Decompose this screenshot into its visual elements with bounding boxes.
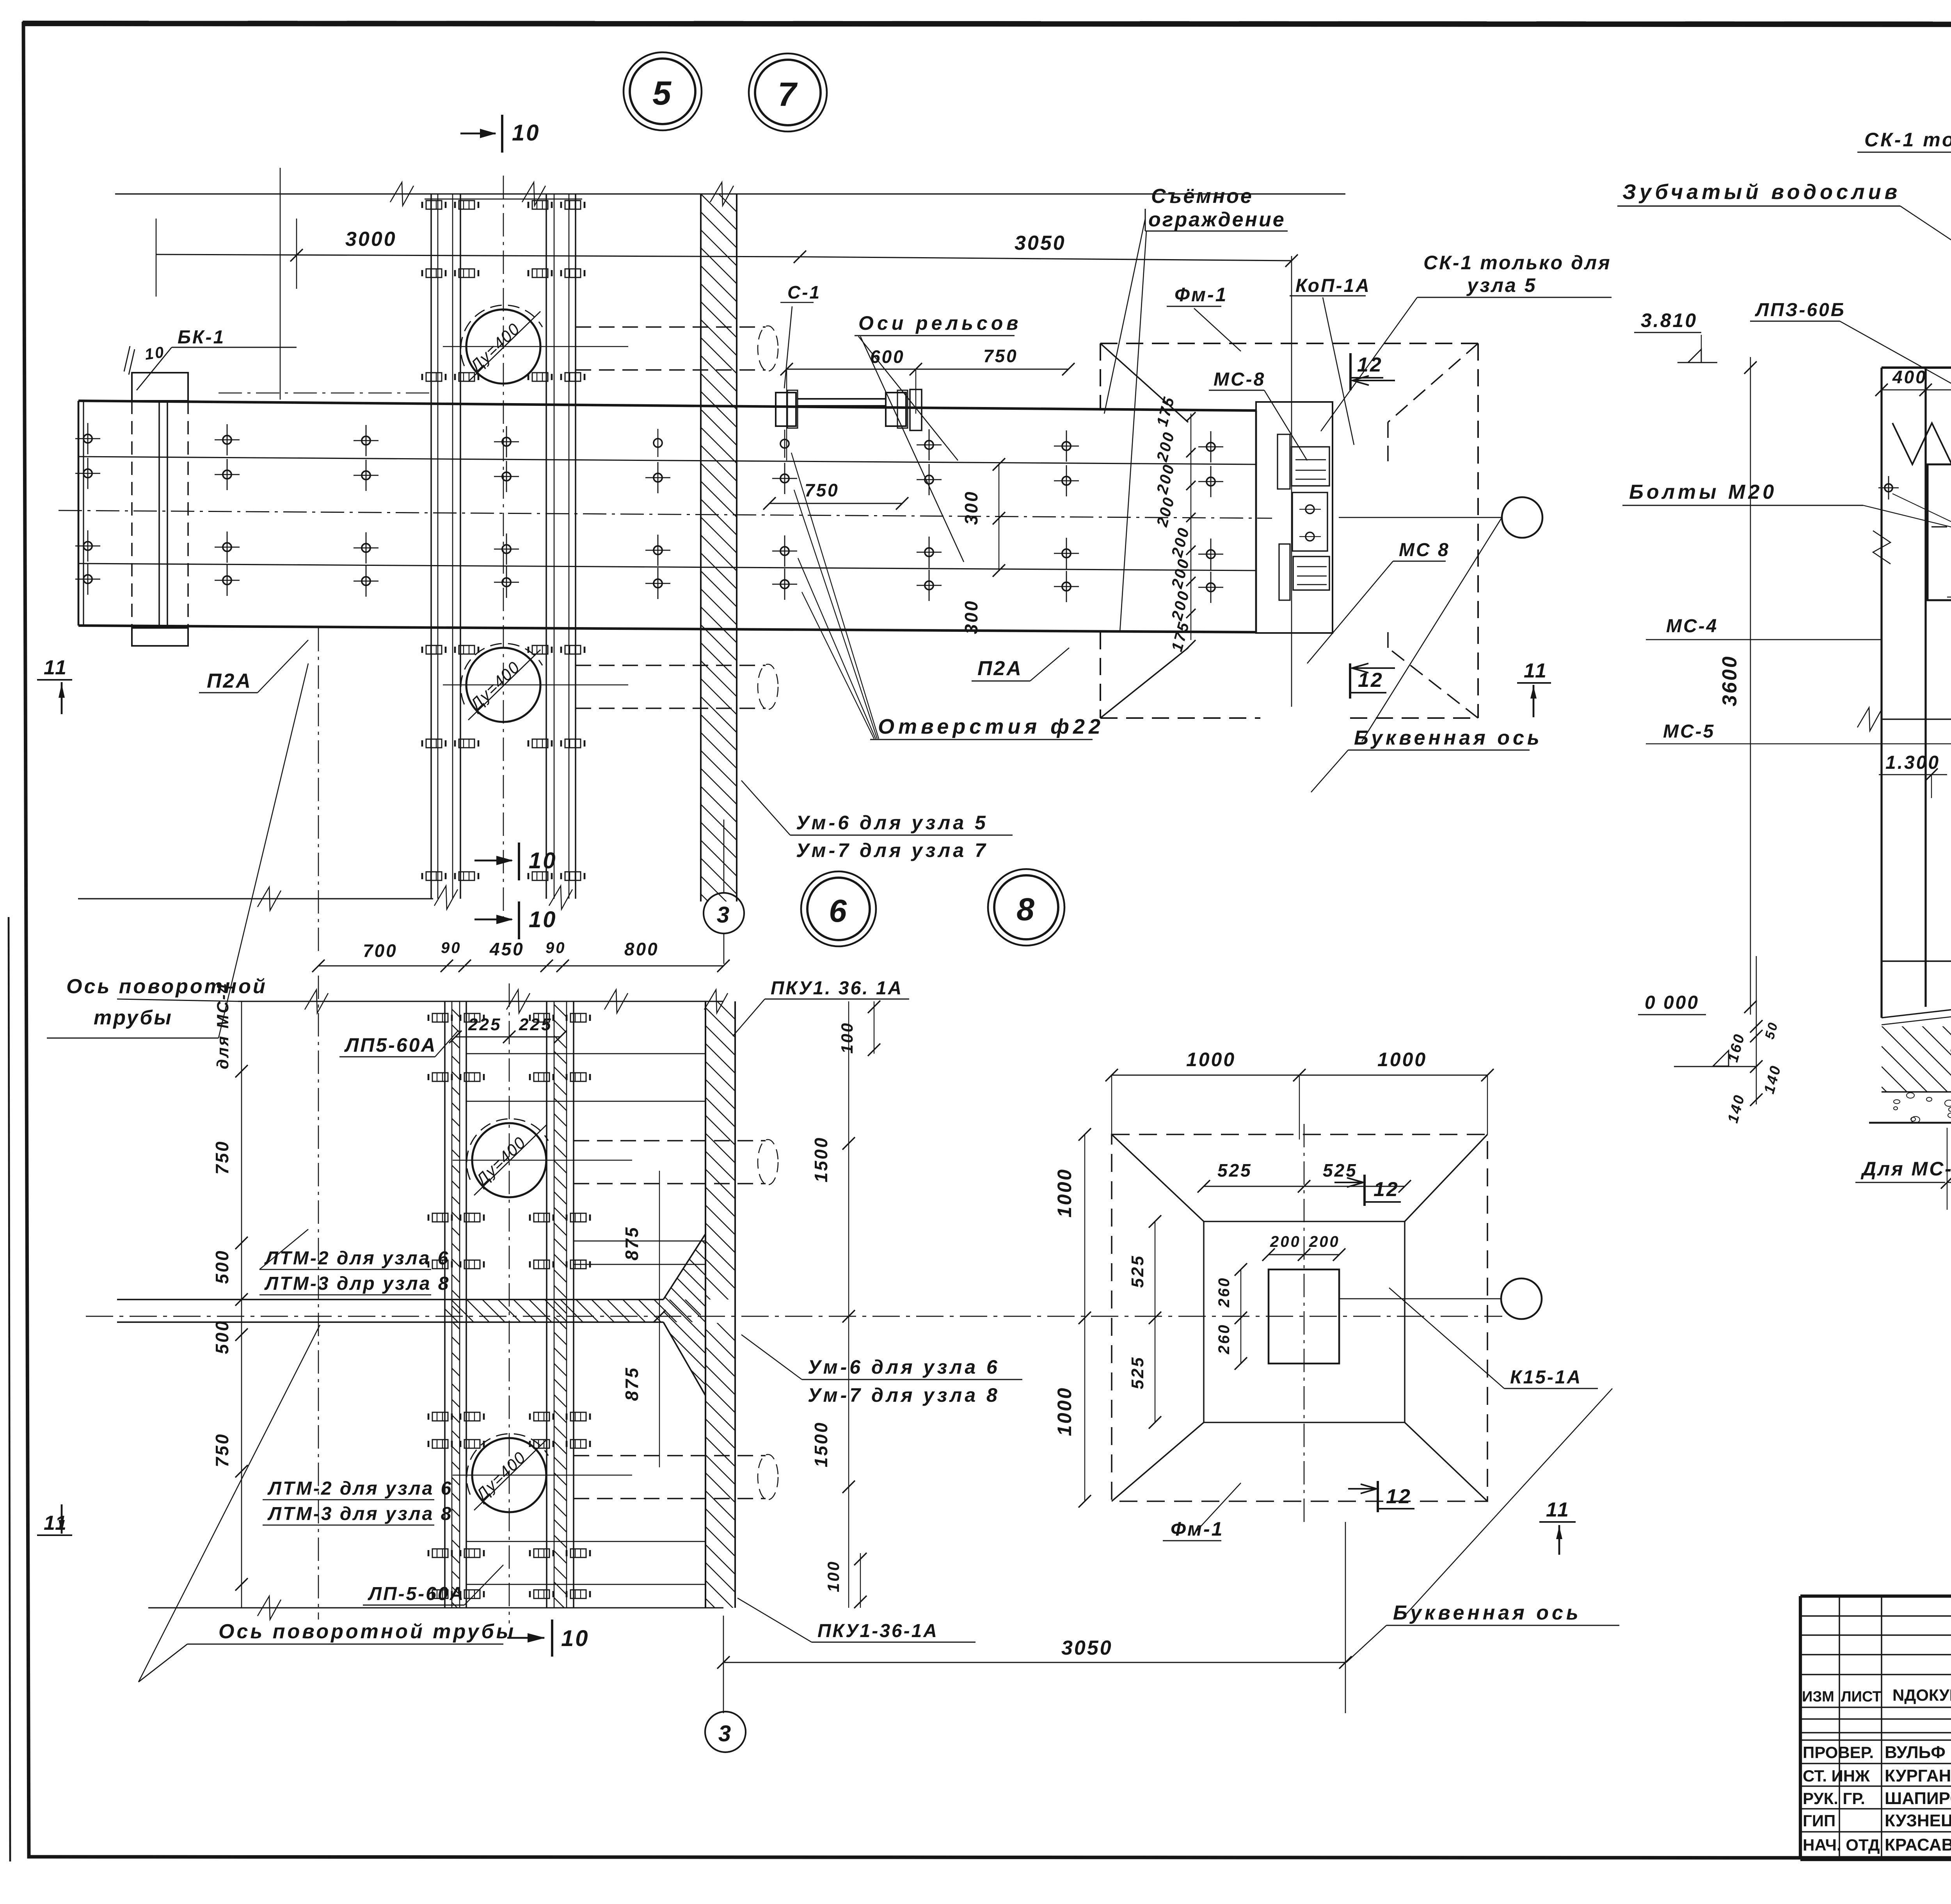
- svg-text:Ось поворотной: Ось поворотной: [66, 975, 267, 998]
- vertical chain left of channel (lower): [318, 976, 319, 1620]
- label КоП-1А: [1290, 276, 1371, 445]
- svg-text:Ум-7 для узла 7: Ум-7 для узла 7: [796, 839, 988, 861]
- svg-text:11: 11: [1524, 660, 1548, 682]
- svg-text:НАЧ. ОТД: НАЧ. ОТД: [1803, 1836, 1880, 1854]
- dimension 225 225: [449, 1015, 567, 1043]
- wall break marks: [1873, 531, 1951, 564]
- label Буквенная ось upper: [1311, 517, 1542, 792]
- svg-text:СК-1 только для: СК-1 только для: [1423, 252, 1612, 274]
- svg-text:П2А: П2А: [207, 670, 252, 692]
- svg-text:Для МС-5: Для МС-5: [1860, 1158, 1951, 1180]
- label Фм-1 top: [1167, 284, 1241, 351]
- title block: [1800, 1596, 1951, 1900]
- channel with flanges (lower plan): [428, 989, 1173, 1904]
- svg-text:Буквенная ось: Буквенная ось: [1354, 727, 1542, 749]
- axis bubble 3 (upper): [704, 820, 744, 964]
- rail clamp C-1 detail: [776, 389, 922, 430]
- svg-text:КоП-1А: КоП-1А: [1295, 276, 1371, 296]
- svg-text:225: 225: [519, 1015, 552, 1034]
- label ЛПЗ-60Б: [1750, 300, 1951, 451]
- dim 1.300: [1879, 752, 1947, 798]
- level mark 3.810: [1634, 309, 1717, 363]
- svg-text:3000: 3000: [345, 228, 397, 251]
- label МС-5: [1663, 721, 1715, 742]
- Фм-1 left dims 1000/1000 rotated: [1054, 1128, 1091, 1508]
- svg-text:300: 300: [961, 490, 981, 525]
- label МС-8: [1209, 369, 1307, 460]
- section mark 12 upper: [1350, 353, 1395, 390]
- svg-text:ЛТМ-2 для узла 6: ЛТМ-2 для узла 6: [267, 1478, 453, 1499]
- svg-text:1500: 1500: [811, 1136, 831, 1182]
- svg-text:800: 800: [624, 939, 659, 959]
- svg-text:600: 600: [870, 347, 905, 367]
- section mark 11 right of Фм-1: [1517, 660, 1551, 717]
- vertical chain axis under beam: [318, 628, 319, 952]
- svg-text:СТ. ИНЖ: СТ. ИНЖ: [1803, 1767, 1870, 1785]
- svg-text:3600: 3600: [1718, 655, 1741, 706]
- svg-text:ЛП5-60А: ЛП5-60А: [344, 1034, 437, 1056]
- svg-text:100: 100: [838, 1022, 856, 1054]
- bottom boundary line of lower plan: [148, 1596, 723, 1620]
- svg-text:750: 750: [805, 480, 839, 500]
- Фм-1 left dims 525/525 rotated: [1128, 1215, 1161, 1429]
- serrated weir left (Зубчатый водослив): [1892, 423, 1951, 464]
- swivel pipe horizontal arm: [117, 1044, 878, 1604]
- dim 100 rotated (top right of lower plan): [838, 1001, 880, 1056]
- beam inner rail lines: [78, 457, 1256, 571]
- pipe Ду=400 upper circle: [461, 305, 542, 384]
- svg-text:200: 200: [1270, 1233, 1301, 1250]
- svg-text:ЛТМ-3 для узла 8: ЛТМ-3 для узла 8: [267, 1504, 453, 1524]
- svg-text:10: 10: [529, 907, 557, 932]
- svg-text:400: 400: [1892, 367, 1927, 387]
- МС-8 / КоП-1А end assembly: [1256, 256, 1333, 707]
- label Болты М20: [1622, 481, 1951, 533]
- svg-text:1000: 1000: [1377, 1049, 1427, 1070]
- svg-text:12: 12: [1358, 669, 1384, 692]
- label Ум-6 для узла 5 / Ум-7 для узла 7: [741, 780, 1013, 861]
- svg-text:525: 525: [1128, 1255, 1147, 1288]
- hatched strip ПКУ1-36-1А (lower plan): [705, 972, 1033, 1904]
- label Буквенная ось (Фм-1): [1346, 1388, 1619, 1662]
- bolt holes grid on beam: [75, 423, 1223, 603]
- svg-text:ограждение: ограждение: [1148, 208, 1286, 231]
- svg-text:450: 450: [489, 939, 524, 959]
- hidden pipe to the right (upper): [219, 326, 778, 393]
- section mark 10 (between plans, upper): [474, 843, 557, 880]
- svg-text:12: 12: [1374, 1178, 1399, 1201]
- section mark 11 left lower: [37, 1504, 72, 1535]
- label П2А left: [199, 640, 308, 693]
- trough left labels: [1947, 542, 1951, 603]
- Фм-1 dim 200 200: [1262, 1233, 1345, 1261]
- svg-text:ВУЛЬФ: ВУЛЬФ: [1885, 1743, 1946, 1762]
- label Отверстия ф22: [791, 453, 1104, 740]
- svg-text:200: 200: [1309, 1233, 1340, 1250]
- svg-text:3050: 3050: [1061, 1637, 1113, 1659]
- svg-text:3050: 3050: [1015, 232, 1066, 254]
- svg-text:11: 11: [1546, 1499, 1570, 1521]
- dimension 3050 bottom: [717, 1522, 1352, 1713]
- svg-text:Ум-7 для узла 8: Ум-7 для узла 8: [808, 1384, 1000, 1406]
- svg-text:для МС-4: для МС-4: [213, 982, 232, 1069]
- bottom dim row Для МС-5 750 500 500 750: [1855, 1128, 1951, 1210]
- section mark 10 (between plans, lower): [474, 901, 557, 939]
- svg-text:10: 10: [144, 343, 166, 363]
- channel centre horizontal lines: [453, 1160, 632, 1475]
- svg-text:ЛИСТ: ЛИСТ: [1841, 1689, 1882, 1705]
- svg-text:1000: 1000: [1186, 1049, 1236, 1070]
- svg-text:12: 12: [1386, 1485, 1412, 1508]
- svg-text:РУК. ГР.: РУК. ГР.: [1803, 1789, 1865, 1808]
- svg-text:90: 90: [545, 939, 566, 956]
- section mark 10 top: [460, 115, 540, 153]
- svg-text:875: 875: [622, 1226, 642, 1260]
- dimension 750 mid: [763, 480, 908, 510]
- hatched strip ПКУ1-36-1А (upper plan): [701, 158, 1444, 1637]
- dimensions 300 300 rotated: [961, 458, 1005, 634]
- axis bubble (letter axis, upper): [1339, 497, 1542, 538]
- svg-text:узла 5: узла 5: [1466, 274, 1537, 296]
- svg-text:КУЗНЕЦОВ: КУЗНЕЦОВ: [1885, 1811, 1951, 1830]
- pipe Ду=400 circle (lower plan, bottom): [467, 1434, 548, 1512]
- svg-text:6: 6: [829, 893, 848, 929]
- left dim column для МС-4: [212, 982, 248, 1608]
- bottom boundary of upper plan: [78, 887, 433, 910]
- dim 3600 rotated: [1718, 357, 1757, 1015]
- svg-text:1.300: 1.300: [1885, 752, 1940, 773]
- svg-text:ГИП: ГИП: [1803, 1812, 1836, 1830]
- svg-text:100: 100: [824, 1560, 842, 1592]
- vertical extension at x400: [156, 219, 157, 297]
- Фм-1 anchor plate: [1269, 1269, 1339, 1364]
- labels ЛТМ-2 / ЛТМ-3 (upper pair): [259, 1229, 450, 1295]
- label C-1: [780, 282, 821, 388]
- label Ось поворотной трубы (upper plan): [47, 663, 308, 1038]
- svg-text:Ум-6 для узла 6: Ум-6 для узла 6: [808, 1356, 1000, 1378]
- section mark 12 lower-left of Фм-1: [1350, 663, 1395, 699]
- svg-text:СК-1 только для узла 5: СК-1 только для узла 5: [1864, 129, 1951, 151]
- pipe axis vertical chain: [503, 176, 504, 917]
- ground slab hatched: [1882, 295, 1951, 1883]
- svg-text:3: 3: [718, 1721, 732, 1746]
- labels ЛТМ-2 / ЛТМ-3 (lower pair): [263, 1478, 453, 1525]
- axis bubble 3 (bottom): [705, 1712, 746, 1752]
- beam П2А top plan: outline: [78, 401, 1256, 632]
- svg-text:КРАСАВИН: КРАСАВИН: [1885, 1835, 1951, 1854]
- horizontal lines channel to strip (lower): [466, 1054, 705, 1584]
- svg-text:К15-1А: К15-1А: [1510, 1367, 1582, 1388]
- svg-text:ШАПИРО: ШАПИРО: [1885, 1789, 1951, 1808]
- Фм-1 centre cross lines: [1304, 1124, 1305, 1522]
- dim 100 rotated (bottom right of lower plan): [824, 1553, 867, 1608]
- svg-text:Зубчатый водослив: Зубчатый водослив: [1622, 180, 1901, 204]
- svg-text:ЛПЗ-60Б: ЛПЗ-60Б: [1755, 300, 1846, 320]
- svg-text:П2А: П2А: [977, 657, 1023, 680]
- svg-text:МС-4: МС-4: [1666, 616, 1718, 636]
- svg-text:Болты М20: Болты М20: [1629, 481, 1777, 503]
- label МС-4: [1646, 616, 1882, 640]
- svg-text:8: 8: [1016, 892, 1036, 927]
- Фм-1 inner solid square: [1204, 1221, 1405, 1422]
- svg-text:1500: 1500: [811, 1421, 831, 1467]
- pipe Ду=400 lower circle: [461, 644, 542, 722]
- axis bubble 5: [624, 52, 702, 130]
- label П2А right: [972, 648, 1069, 681]
- svg-text:500: 500: [212, 1319, 232, 1354]
- dim 1500 rotated pair + 1000: [811, 1001, 855, 1608]
- hidden pipes right (lower plan): [574, 1140, 778, 1500]
- vertical pipe run with flanges (upper): [422, 194, 585, 909]
- dimension 700 90 450 90 800: [312, 939, 730, 972]
- svg-text:Буквенная ось: Буквенная ось: [1393, 1602, 1581, 1624]
- svg-text:КУРГАНОВА: КУРГАНОВА: [1885, 1766, 1951, 1785]
- channel axis chain (lower): [509, 983, 510, 1623]
- pipe Ду=400 circle (lower plan, top): [467, 1119, 548, 1197]
- svg-text:1000: 1000: [1054, 1387, 1075, 1436]
- svg-text:90: 90: [441, 939, 462, 956]
- label ЛП-5-60А lower: [363, 1565, 503, 1605]
- section mark 11 (Фм-1 right): [1539, 1499, 1576, 1555]
- svg-text:NДОКУМ.: NДОКУМ.: [1892, 1686, 1951, 1704]
- horizontal axis chain (lower plan): [86, 1316, 1502, 1317]
- svg-text:7: 7: [778, 76, 798, 113]
- svg-text:ПКУ1-36-1А: ПКУ1-36-1А: [817, 1621, 938, 1641]
- Фм-1 dim 525 525 top: [1198, 1160, 1411, 1193]
- small level dims 160 50 140 140: [1725, 956, 1784, 1125]
- svg-text:10: 10: [561, 1626, 590, 1651]
- svg-text:750: 750: [983, 346, 1018, 366]
- svg-text:10: 10: [512, 120, 540, 146]
- tank left wall: [1882, 368, 1926, 1018]
- svg-text:Оси рельсов: Оси рельсов: [858, 312, 1022, 334]
- dimension 3000: [156, 228, 806, 263]
- svg-text:ЛП-5-60А: ЛП-5-60А: [368, 1584, 465, 1604]
- beam axis chain line: [59, 510, 1272, 518]
- svg-text:трубы: трубы: [94, 1006, 173, 1029]
- foundation Фм-1 dashed outline (plan near beam): [1100, 343, 1478, 718]
- svg-text:525: 525: [1217, 1160, 1252, 1180]
- dim 875 rotated pair: [622, 1171, 666, 1467]
- foundation Фм-1 square plan: outer dashed: [1112, 1134, 1487, 1501]
- svg-text:525: 525: [1128, 1356, 1147, 1389]
- svg-text:ПРОВЕР.: ПРОВЕР.: [1803, 1743, 1874, 1762]
- tank rim line: [1882, 366, 1951, 369]
- label 10 small + BK-1: [124, 327, 297, 390]
- svg-text:ИЗМ: ИЗМ: [1802, 1689, 1834, 1705]
- section mark 12 (Фм-1 bottom): [1348, 1481, 1414, 1512]
- svg-text:260: 260: [1215, 1276, 1233, 1308]
- svg-text:Фм-1: Фм-1: [1175, 284, 1228, 306]
- top boundary line of lower plan: [117, 990, 728, 1013]
- svg-text:11: 11: [44, 656, 68, 679]
- Фм-1 top dimension 1000 1000: [1105, 1049, 1494, 1140]
- svg-text:3: 3: [717, 902, 731, 928]
- svg-text:Ось поворотной трубы: Ось поворотной трубы: [219, 1620, 516, 1643]
- tank bottom slab lines: [1882, 960, 1951, 962]
- svg-text:МС-5: МС-5: [1663, 721, 1715, 742]
- svg-text:5: 5: [652, 75, 673, 112]
- axis bubble (letter axis, Фм-1): [1339, 1278, 1542, 1319]
- axis bubble 6: [801, 871, 876, 946]
- svg-text:700: 700: [363, 940, 398, 961]
- svg-text:260: 260: [1215, 1323, 1233, 1355]
- svg-text:Фм-1: Фм-1: [1171, 1518, 1224, 1540]
- svg-text:225: 225: [468, 1015, 501, 1034]
- label К15-1А: [1339, 1288, 1598, 1388]
- label Ум-6/Ум-7 (lower plan): [741, 1335, 1022, 1406]
- svg-text:300: 300: [961, 599, 981, 634]
- svg-text:875: 875: [622, 1366, 642, 1401]
- svg-text:12: 12: [1357, 354, 1383, 376]
- Фм-1 dims 260/260 rotated: [1215, 1263, 1247, 1370]
- gravel band: [1869, 1092, 1951, 1123]
- label СК-1 только для узла 5 (section): [1857, 117, 1951, 152]
- svg-text:750: 750: [212, 1140, 232, 1175]
- svg-text:750: 750: [212, 1433, 232, 1467]
- axis bubble 7: [749, 53, 827, 132]
- left extension line: [280, 168, 281, 400]
- svg-text:Отверстия ф22: Отверстия ф22: [878, 715, 1104, 738]
- svg-text:3.810: 3.810: [1641, 309, 1697, 331]
- svg-text:ЛТМ-2 для узла 6: ЛТМ-2 для узла 6: [264, 1248, 450, 1269]
- level mark 0.000: [1638, 992, 1756, 1067]
- svg-text:ПКУ1. 36. 1А: ПКУ1. 36. 1А: [771, 978, 903, 999]
- top boundary line of upper plan: [115, 182, 1345, 206]
- dimension stack 175 200 200 200 (x2) rotated: [1153, 394, 1196, 653]
- svg-text:БК-1: БК-1: [178, 327, 225, 348]
- svg-text:ЛТМ-3 длр узла 8: ЛТМ-3 длр узла 8: [264, 1273, 450, 1294]
- label Фм-1 bottom: [1163, 1483, 1241, 1541]
- svg-text:10: 10: [529, 848, 557, 873]
- section mark 12 (Фм-1 top right): [1334, 1175, 1401, 1206]
- svg-text:11: 11: [44, 1512, 68, 1534]
- dimension 600 750: [780, 346, 1075, 460]
- label Ось поворотной трубы (bottom): [139, 1325, 590, 1682]
- svg-text:500: 500: [212, 1249, 232, 1284]
- label ПКУ1-36-1А lower bottom: [737, 1598, 975, 1642]
- label Зубчатый водослив: [1617, 180, 1951, 445]
- svg-text:С-1: С-1: [787, 282, 821, 302]
- pipe centre horizontal lines: [443, 347, 628, 685]
- mid horizontal lines of tank: [1646, 708, 1951, 744]
- floor slope lines: [1882, 997, 1951, 1018]
- svg-text:Съёмное: Съёмное: [1151, 185, 1253, 208]
- collection trough left: [1878, 464, 1951, 600]
- hidden pipe to the right (lower): [576, 664, 778, 709]
- label СК-1 только для узла 5 (plan): [1321, 252, 1612, 431]
- svg-text:525: 525: [1323, 1160, 1358, 1180]
- axis bubble 8: [988, 869, 1064, 946]
- svg-text:0 000: 0 000: [1645, 992, 1699, 1013]
- label Оси рельсов: [855, 312, 1022, 562]
- svg-text:1000: 1000: [1054, 1168, 1075, 1218]
- scan edge artifact left: [9, 917, 10, 1861]
- svg-text:Ум-6 для узла 5: Ум-6 для узла 5: [796, 812, 988, 834]
- dimension 3050 top: [800, 232, 1298, 267]
- svg-text:МС-8: МС-8: [1214, 369, 1265, 390]
- end plate BK-1: [132, 373, 188, 646]
- section mark 11 left: [37, 656, 72, 714]
- label Съёмное ограждение: [1104, 185, 1288, 632]
- label ПКУ1-36-1А (lower top): [733, 978, 909, 1036]
- label МС 8 (в плане): [1307, 540, 1450, 663]
- dim row 400 550 450 300 300 450 550 400: [1875, 367, 1951, 396]
- label ЛП5-60А: [339, 1030, 458, 1057]
- svg-text:МС 8: МС 8: [1399, 540, 1450, 560]
